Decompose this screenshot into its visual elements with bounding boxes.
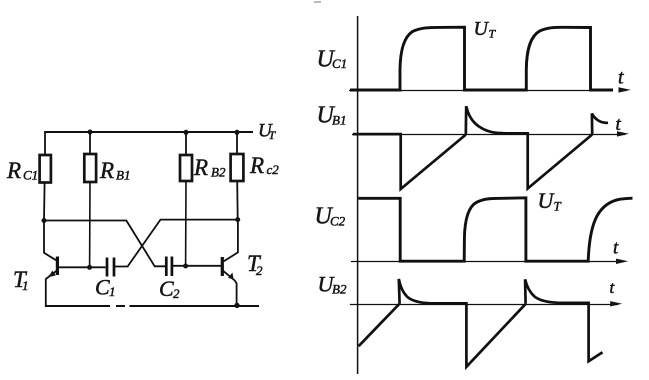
wire: C2 right plate to T2 base [172, 265, 222, 267]
svg-text:C1: C1 [332, 56, 347, 71]
resistor R_C1 [40, 155, 51, 183]
wire: T2 emitter down to ground rail node [235, 281, 237, 305]
svg-text:C: C [159, 276, 174, 301]
plot1 waveform U_C1 trace [350, 27, 613, 90]
wire: R_B1 bottom down to T1 base junction (crosses collector wire) [89, 182, 91, 267]
resistor R_B1 [84, 154, 96, 182]
wire: rail to R_B2 top [185, 132, 187, 156]
capacitor C2 [166, 257, 172, 277]
svg-text:t: t [613, 238, 619, 259]
svg-text:2: 2 [256, 263, 263, 278]
wire: R_B2 bottom down to T2 base junction (crosses coupling wire) [185, 181, 187, 266]
transistor T1 emitter with arrow [46, 271, 57, 279]
capacitor C1 [107, 258, 114, 277]
node: rail / R_B2 junction [184, 130, 189, 135]
wire: C1 right plate, diagonal up to T2 collector node [114, 220, 238, 267]
wire: T2 collector lead (node down, diagonal to bar) [224, 220, 238, 262]
svg-text:R: R [249, 153, 264, 178]
plot1 t-axis with arrow [349, 90, 627, 92]
plot3 t-axis with arrow [351, 261, 624, 263]
svg-text:B1: B1 [116, 168, 130, 183]
svg-text:t: t [610, 278, 616, 297]
wire: T1 base to C1 left plate [59, 266, 106, 268]
svg-text:2: 2 [173, 286, 180, 301]
plot4 t-axis with arrow [350, 304, 618, 306]
svg-text:t: t [616, 114, 622, 135]
wire: rail to R_C2 top [236, 132, 238, 155]
svg-text:R: R [6, 158, 21, 183]
resistor R_B2 [180, 155, 192, 181]
transistor T1 base bar [56, 257, 59, 276]
node: T1 base / R_B1 junction [87, 265, 92, 270]
wire: T1 emitter down to ground rail [45, 279, 47, 307]
wire: T1 collector node, diagonal down to C2 left plate [44, 221, 165, 267]
resistor R_C2 [231, 154, 244, 181]
svg-text:C2: C2 [330, 214, 346, 229]
svg-text:1: 1 [109, 284, 116, 299]
svg-text:T: T [554, 199, 562, 214]
plot2 t-axis with arrow [352, 134, 625, 136]
svg-text:c2: c2 [267, 162, 280, 177]
ground rail (dash-dot) [45, 305, 259, 307]
svg-text:t: t [618, 67, 624, 89]
wire: rail to R_B1 top [89, 132, 91, 155]
node: T2 base / R_B2 junction [183, 264, 188, 269]
wire: +U_T supply top rail [45, 131, 253, 133]
plot3 waveform U_C2 trace [358, 198, 632, 261]
plot2 waveform U_B1 trace [353, 106, 608, 189]
svg-text:R: R [99, 158, 114, 183]
node: rail / R_B1 junction [88, 130, 93, 135]
svg-text:C: C [95, 275, 110, 300]
transistor T2 base bar [221, 257, 224, 276]
wire: R_C2 bottom to T2 collector node [236, 181, 239, 220]
wire: rail corner down to R_C1 top [44, 131, 46, 156]
node: rail / R_C2 junction [235, 130, 240, 135]
transistor T2 emitter with arrow [223, 271, 235, 281]
node: ground rail / T2 emitter [234, 303, 239, 308]
wire: T1 collector lead (node down, diagonal to bar) [44, 221, 56, 261]
svg-text:R: R [193, 155, 208, 180]
svg-text:B1: B1 [332, 113, 346, 128]
wire: R_C1 bottom to T1 collector node [43, 183, 46, 221]
svg-text:B2: B2 [332, 282, 347, 297]
scan smudge top [314, 1, 321, 3]
shared ordinate axis [357, 16, 359, 374]
svg-text:1: 1 [22, 278, 29, 293]
node: T2 collector [235, 217, 240, 222]
svg-text:C1: C1 [23, 168, 38, 183]
svg-text:T: T [489, 27, 497, 41]
plot4 waveform U_B2 trace [359, 279, 603, 367]
node: T1 collector [42, 218, 47, 223]
svg-text:U: U [474, 18, 490, 40]
svg-text:T: T [269, 128, 277, 142]
svg-text:B2: B2 [211, 165, 226, 180]
